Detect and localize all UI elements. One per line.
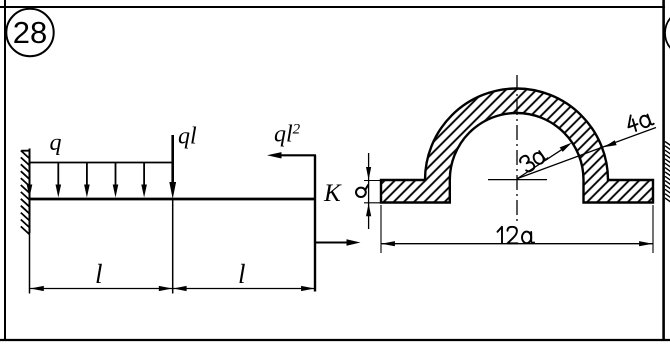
dimension 12a extension lines bbox=[380, 205, 382, 253]
frame top border line bbox=[0, 6, 665, 8]
vertical centerline (dash-dot) bbox=[516, 75, 518, 221]
radius 3a arrow bbox=[518, 143, 573, 179]
moment couple upper arrow (left) bbox=[267, 152, 316, 158]
problem number circle 28 bbox=[6, 9, 53, 56]
distributed load q top line bbox=[30, 162, 173, 164]
svg-text:28: 28 bbox=[13, 15, 47, 50]
frame left border line bbox=[4, 0, 6, 341]
svg-text:l: l bbox=[238, 259, 246, 289]
dimension l (right span) bbox=[173, 286, 315, 291]
moment couple lower arrow (right) bbox=[315, 239, 361, 245]
thickness dimension a line with arrows bbox=[366, 153, 371, 229]
label 12a bbox=[498, 227, 535, 244]
radius 4a arrow bbox=[518, 128, 657, 179]
thickness dimension a extension lines bbox=[364, 180, 381, 182]
label 3a bbox=[519, 145, 549, 173]
svg-text:K: K bbox=[323, 180, 342, 207]
extension line below ql bbox=[172, 200, 174, 294]
label a (rotated) bbox=[356, 185, 368, 197]
extension line below wall bbox=[29, 233, 31, 294]
svg-text:l: l bbox=[95, 259, 103, 289]
svg-text:ql: ql bbox=[178, 124, 197, 150]
label 4a bbox=[625, 109, 654, 133]
distributed load arrows bbox=[27, 163, 147, 198]
dimension l (left span) bbox=[30, 286, 172, 291]
adjacent figure wall hatching (right edge) bbox=[665, 142, 670, 203]
moment couple ql2 vertical line bbox=[314, 155, 316, 291]
svg-text:q: q bbox=[50, 130, 62, 156]
fixed support wall bbox=[21, 149, 30, 235]
horizontal centerline bbox=[488, 179, 547, 181]
beam bbox=[30, 198, 316, 201]
dimension 12a line bbox=[381, 241, 652, 246]
frame bottom border line bbox=[0, 339, 670, 341]
cross-section outline with hatching bbox=[381, 88, 653, 202]
adjacent problem number circle (partial, right edge) bbox=[665, 10, 670, 57]
force ql arrow bbox=[169, 135, 176, 199]
frame right border line bbox=[662, 0, 665, 341]
